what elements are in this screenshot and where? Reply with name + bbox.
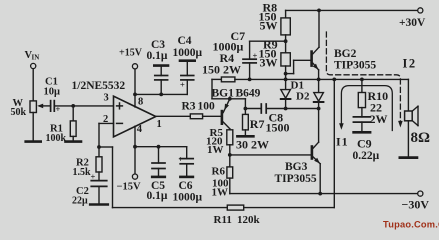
svg-text:D2: D2	[296, 91, 310, 103]
svg-text:8Ω: 8Ω	[411, 130, 431, 146]
svg-text:+15V: +15V	[119, 48, 143, 59]
svg-text:3: 3	[104, 93, 109, 104]
svg-text:BG2: BG2	[334, 48, 357, 60]
svg-text:C9: C9	[357, 137, 372, 151]
svg-text:R7: R7	[250, 117, 265, 131]
svg-text:1000μ: 1000μ	[213, 40, 244, 54]
svg-text:TIP3055: TIP3055	[275, 173, 317, 185]
svg-text:+: +	[91, 172, 96, 182]
svg-text:R11: R11	[214, 214, 232, 226]
svg-text:−15V: −15V	[117, 182, 141, 193]
svg-text:30 2W: 30 2W	[236, 138, 269, 152]
svg-text:5W: 5W	[260, 19, 278, 33]
svg-text:50k: 50k	[11, 107, 27, 118]
svg-text:1000μ: 1000μ	[173, 47, 203, 59]
svg-text:150 2W: 150 2W	[202, 63, 241, 77]
svg-text:1000μ: 1000μ	[173, 192, 203, 204]
svg-text:−30V: −30V	[402, 198, 430, 212]
svg-text:R3: R3	[182, 101, 196, 113]
svg-text:BG3: BG3	[285, 161, 308, 173]
svg-text:C4: C4	[178, 35, 192, 47]
svg-text:+: +	[253, 51, 258, 61]
svg-text:4: 4	[137, 124, 143, 135]
svg-text:Tupao.Com.Cn: Tupao.Com.Cn	[383, 220, 439, 230]
svg-text:120k: 120k	[237, 214, 261, 226]
svg-text:1/2NE5532: 1/2NE5532	[72, 80, 126, 92]
svg-text:1.5k: 1.5k	[73, 167, 92, 178]
svg-text:B649: B649	[236, 88, 261, 100]
svg-text:8: 8	[138, 97, 143, 108]
svg-text:I2: I2	[403, 57, 417, 71]
svg-text:1: 1	[157, 119, 162, 130]
svg-text:3W: 3W	[260, 56, 278, 70]
svg-text:0.1μ: 0.1μ	[147, 190, 168, 202]
svg-text:22μ: 22μ	[72, 196, 88, 207]
svg-text:0.22μ: 0.22μ	[353, 150, 380, 162]
svg-text:+: +	[180, 80, 185, 90]
svg-text:100k: 100k	[46, 133, 67, 144]
svg-text:R6: R6	[212, 166, 226, 178]
svg-text:1500: 1500	[266, 121, 290, 135]
svg-text:100: 100	[198, 101, 216, 113]
svg-text:2W: 2W	[370, 112, 388, 126]
svg-text:1W: 1W	[212, 187, 229, 199]
svg-text:+30V: +30V	[399, 17, 426, 29]
svg-text:TIP3055: TIP3055	[334, 60, 376, 72]
svg-text:C6: C6	[179, 180, 193, 192]
svg-text:+: +	[178, 154, 183, 164]
svg-text:1W: 1W	[207, 144, 224, 156]
svg-text:0.1μ: 0.1μ	[147, 50, 168, 62]
svg-text:10μ: 10μ	[44, 87, 61, 98]
svg-text:IN: IN	[32, 54, 40, 62]
svg-text:I1: I1	[336, 135, 349, 149]
